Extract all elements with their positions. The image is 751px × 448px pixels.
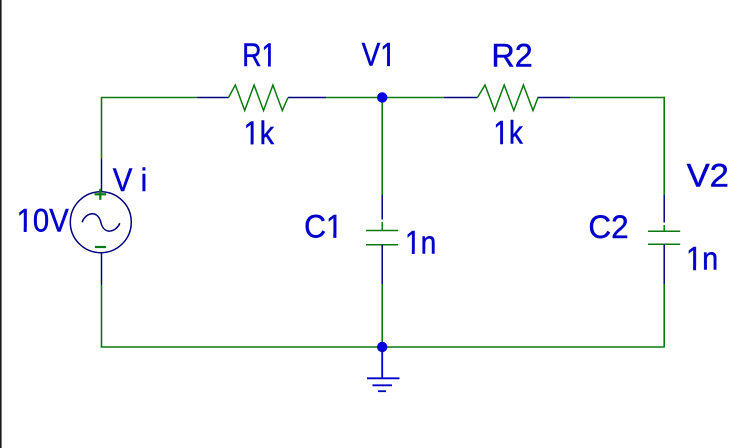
wire C1 to bottom node — [381, 284, 383, 347]
wire left vertical upper — [101, 97, 103, 159]
ground — [367, 350, 400, 391]
node V1 junction dot — [377, 92, 387, 102]
resistor R1 — [198, 85, 327, 111]
svg-text:10V: 10V — [17, 202, 70, 238]
label 1n of C1 — [405, 226, 436, 261]
pin top — [663, 195, 665, 223]
svg-text:V2: V2 — [687, 159, 729, 195]
wire bottom rail — [101, 346, 664, 348]
wire right vertical lower — [663, 284, 665, 348]
plus mark — [95, 189, 107, 200]
sine wave — [82, 214, 120, 231]
zigzag — [229, 85, 289, 111]
wire V1 down to C1 — [381, 98, 383, 196]
svg-text:C2: C2 — [588, 209, 628, 245]
label 1k of R1 — [244, 116, 275, 152]
label V1 — [362, 38, 396, 73]
wire node V1 to R2 — [382, 97, 444, 99]
voltage source V1 (Vi) — [70, 159, 131, 286]
svg-text:1k: 1k — [493, 116, 523, 151]
capacitor C1 — [366, 195, 398, 284]
label 1k of R2 — [493, 116, 523, 151]
wire top-left horizontal (corner to R1) — [102, 97, 198, 99]
resistor R2 — [444, 85, 570, 111]
label 10V — [17, 202, 70, 238]
pin left — [444, 97, 478, 99]
pin right — [288, 97, 326, 99]
pin left — [198, 97, 229, 99]
capacitor C2 — [648, 195, 680, 284]
label C2 — [588, 209, 628, 245]
wire right vertical upper — [663, 97, 665, 195]
label R2 — [491, 38, 532, 74]
wire R1 to node V1 — [326, 97, 382, 99]
pin bottom — [381, 245, 383, 284]
plate bottom — [648, 243, 680, 245]
svg-text:1n: 1n — [405, 226, 436, 261]
plate bottom — [366, 244, 398, 246]
wire top-right horizontal (R2 to corner) — [570, 97, 665, 99]
ground bar 1 — [367, 377, 400, 379]
pin right — [538, 97, 571, 99]
svg-text:1k: 1k — [244, 116, 275, 152]
label R1 — [242, 38, 276, 74]
label C1 — [304, 209, 343, 245]
lead top — [663, 225, 665, 231]
label 1n of C2 — [686, 241, 718, 277]
pin bottom — [101, 253, 103, 285]
ground stem — [381, 350, 383, 378]
svg-text:V i: V i — [113, 162, 147, 198]
plate top — [648, 230, 680, 232]
pin top — [101, 159, 103, 193]
svg-text:1n: 1n — [686, 241, 718, 277]
lead top — [381, 222, 383, 231]
ground bar 3 — [378, 390, 386, 392]
pin top — [381, 195, 383, 220]
minus mark — [95, 246, 106, 248]
svg-text:V1: V1 — [362, 38, 396, 73]
ground bar 2 — [373, 384, 393, 386]
svg-text:R2: R2 — [491, 38, 532, 74]
label V2 — [687, 159, 729, 195]
label Vi — [113, 162, 147, 198]
node ground junction dot — [377, 342, 387, 352]
svg-text:R1: R1 — [242, 38, 276, 74]
pin bottom — [663, 244, 665, 284]
body circle — [70, 192, 131, 253]
border left edge — [0, 0, 2, 448]
zigzag — [478, 85, 539, 111]
wire left vertical lower — [101, 285, 103, 348]
plate top — [366, 230, 398, 232]
